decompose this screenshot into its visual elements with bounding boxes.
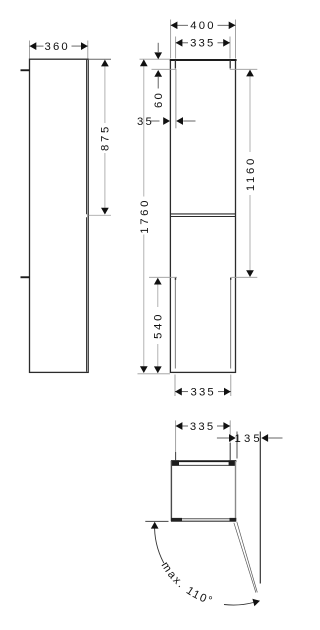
dim 360 extension lines xyxy=(30,41,88,59)
dim 335 top extension lines xyxy=(176,37,230,59)
side view cabinet outline xyxy=(30,59,89,372)
svg-text:875: 875 xyxy=(100,124,112,151)
dim 1160 label (rotated) xyxy=(245,156,257,191)
svg-text:335: 335 xyxy=(190,38,215,50)
open door leaf (two lines wedge) xyxy=(234,522,257,593)
dim 135 left bar extension xyxy=(236,432,238,459)
dim 360 label xyxy=(44,41,69,53)
dim 335 bottom label xyxy=(190,387,215,399)
dim 35 left arrow (pointing right at carcass edge) xyxy=(150,117,170,125)
extension tick y69 right xyxy=(230,68,257,70)
front door top hinge mark left xyxy=(174,60,176,69)
svg-text:60: 60 xyxy=(153,91,165,108)
dim 60 lower arrow (pointing up at door top) and leader xyxy=(154,70,162,89)
extension tick y277 right xyxy=(231,276,257,278)
svg-text:400: 400 xyxy=(190,20,215,32)
dim 400 extension lines xyxy=(171,20,236,59)
front view carcass outline xyxy=(170,60,235,373)
dim 35 label xyxy=(137,116,154,128)
svg-text:135: 135 xyxy=(234,433,262,445)
svg-text:360: 360 xyxy=(44,41,69,53)
extension line 35 (door left edge) xyxy=(175,69,177,128)
dim 400 line and arrows xyxy=(171,21,236,29)
plan view door front thick line xyxy=(171,460,237,462)
extension tick y277 left xyxy=(149,276,177,278)
side view door front edge line (inner double line, with gap) xyxy=(86,60,88,372)
plan view back corner blob left xyxy=(171,518,182,522)
svg-text:335: 335 xyxy=(190,387,215,399)
svg-text:35: 35 xyxy=(137,116,154,128)
plan view back corner blob right xyxy=(230,518,237,522)
dim 335 plan extension lines xyxy=(176,420,231,460)
dim 875 label (rotated) xyxy=(100,124,112,151)
side view mid extension line (875 bottom) xyxy=(89,214,112,216)
wall bracket tick upper xyxy=(21,69,30,71)
svg-text:335: 335 xyxy=(190,421,215,433)
dim 335 plan line and arrows xyxy=(176,422,231,430)
wall bracket tick lower xyxy=(21,276,30,278)
extension line top left (1760) xyxy=(140,58,171,60)
swing arc segment 2 with end arrow xyxy=(224,599,260,606)
dim 335 top line and arrows xyxy=(176,39,230,47)
dim 60 label (rotated) xyxy=(153,91,165,108)
extension tick y69 left xyxy=(152,68,177,70)
dim 875 line and arrows xyxy=(101,60,109,215)
dim 335 top label xyxy=(190,38,215,50)
dim 540 label (rotated) xyxy=(153,312,165,339)
dim 60 upper arrow (pointing down at top edge) xyxy=(154,43,162,59)
svg-text:540: 540 xyxy=(153,312,165,339)
plan view right side edge xyxy=(235,461,237,521)
plan view hinge block left xyxy=(171,460,179,465)
plan view back edge double line xyxy=(171,519,236,522)
swing angle label max. 110deg (along arc) xyxy=(159,560,227,608)
dim 335 bottom extension lines xyxy=(175,375,231,397)
dim 135 right arrow (pointing left) xyxy=(261,434,282,442)
front divider double line xyxy=(170,214,235,217)
dim 135 label xyxy=(234,433,262,445)
plan view left extension tick (arc start) xyxy=(145,520,168,522)
dim 360 line and arrows xyxy=(30,42,88,50)
lower door right edge xyxy=(230,278,231,369)
svg-text:1760: 1760 xyxy=(139,198,151,234)
dim 35 right arrow (pointing left at door edge) xyxy=(176,117,195,125)
dim 1760 label (rotated) xyxy=(139,198,151,234)
swing arc segment 1 with start arrow up xyxy=(151,522,164,563)
dim 1760 line and arrows xyxy=(140,59,148,373)
dim 1160 line and arrows xyxy=(246,70,254,277)
front door top hinge mark right xyxy=(229,60,231,69)
plan view hinge block right xyxy=(229,460,236,465)
dim 335 plan label xyxy=(190,421,215,433)
dim 135 left arrow (pointing right) xyxy=(217,434,236,442)
svg-text:1160: 1160 xyxy=(245,156,257,191)
dim 540 line and arrows xyxy=(154,278,162,374)
extension line bottom left (1760/540) xyxy=(138,373,171,375)
front view top edge thick xyxy=(170,59,237,61)
lower door left edge xyxy=(175,278,176,369)
long vertical extension line (135 right / door swing limit) xyxy=(259,432,261,584)
dim 335 bottom line and arrows xyxy=(175,388,231,396)
side view top extension line to the right xyxy=(88,58,111,60)
plan view left side edge xyxy=(170,461,172,521)
plan view carcass front line xyxy=(171,464,236,466)
dim 400 label xyxy=(190,20,215,32)
